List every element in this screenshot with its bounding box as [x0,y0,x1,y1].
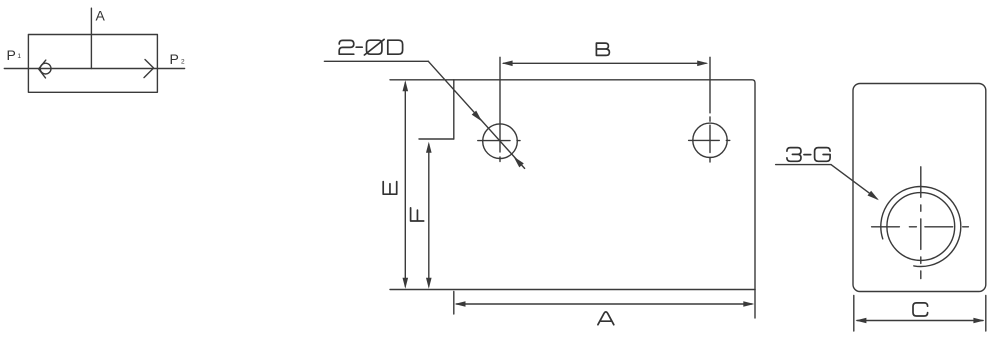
svg-text:P: P [7,47,16,63]
svg-text:1: 1 [17,53,21,60]
svg-text:P: P [170,51,179,67]
svg-text:A: A [96,8,106,24]
svg-text:2: 2 [181,59,185,66]
